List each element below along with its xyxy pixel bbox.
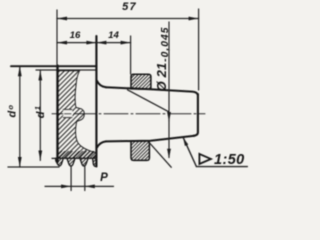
d_1 bottom arrowhead xyxy=(38,151,42,161)
diameter dimension bottom arrowhead xyxy=(167,149,171,159)
dimension 14: extension line right (to collar block) xyxy=(130,36,132,74)
diameter dimension mid arrowhead at axis xyxy=(167,112,171,122)
d_o dimension line xyxy=(19,66,21,167)
shaft lower fillet at pulley face xyxy=(97,141,106,147)
P dimension: right arrowhead (outside) xyxy=(85,185,95,189)
svg-text:57: 57 xyxy=(122,1,137,13)
dimension 14: dimension line xyxy=(96,42,130,44)
svg-text:d: d xyxy=(7,111,19,118)
svg-text:d: d xyxy=(35,111,47,118)
d_o bottom arrowhead xyxy=(18,157,22,167)
collar key block (top, hatched) xyxy=(131,74,151,89)
P dimension: right extension line xyxy=(84,166,86,191)
svg-text:16: 16 xyxy=(70,30,81,41)
pulley right face (with extension up to dim row) xyxy=(95,36,97,167)
svg-text:1: 1 xyxy=(33,106,42,110)
pulley groove tooth 3 xyxy=(80,158,88,166)
P dimension: left extension line xyxy=(70,166,72,191)
pulley bottom rim band (section) xyxy=(58,151,97,159)
pulley hub keyway notch (white) xyxy=(63,109,72,117)
P dimension: left arrowhead (outside) xyxy=(61,185,71,189)
pulley groove-bottom line (bottom), extended left as d_1 extension line xyxy=(52,157,96,159)
pulley web+rim hatched section xyxy=(58,71,97,159)
shaft upper fillet at pulley face xyxy=(97,81,106,88)
shaft bottom edge (taper) xyxy=(106,136,195,142)
dimension 14: right arrowhead xyxy=(121,41,131,45)
dimension 57: extension line left xyxy=(56,10,58,66)
dimension 57: left arrowhead xyxy=(57,17,67,21)
taper construction diagonal (upper) xyxy=(128,90,169,112)
shaft end face xyxy=(194,94,198,136)
pulley groove tooth 2 xyxy=(67,158,75,166)
paper background xyxy=(0,0,251,199)
pulley outer (top) edge, extended left as d_o extension line xyxy=(11,65,96,67)
pulley groove-bottom (top) line, extended left as d_1 extension line xyxy=(36,69,96,71)
pulley left face xyxy=(56,66,58,162)
dimension 57: extension line right xyxy=(198,9,200,90)
keyway notch top and bottom edges xyxy=(63,110,71,118)
shaft top edge (slight 1:50 taper) xyxy=(106,87,198,95)
dimension 57: dimension line xyxy=(57,18,199,20)
svg-text:1:50: 1:50 xyxy=(214,152,245,168)
pulley groove tooth 4 xyxy=(93,158,97,166)
taper construction diagonal (lower) xyxy=(150,144,171,168)
d_1 top arrowhead xyxy=(38,71,42,81)
pulley rim top band (section strip) xyxy=(58,66,97,71)
d_o top arrowhead xyxy=(18,66,22,76)
dimension 16: left arrowhead xyxy=(57,41,67,45)
centerline (axis, dash-dot) xyxy=(52,113,205,115)
d_1 dimension line xyxy=(39,70,41,160)
svg-text:14: 14 xyxy=(108,30,119,41)
pulley outer-diameter bottom extension line (d_o) xyxy=(8,166,59,168)
svg-text:P: P xyxy=(100,172,108,184)
centerline dash inside notch xyxy=(65,113,72,115)
collar key block (bottom, hatched) xyxy=(131,141,149,161)
dimension 14: left arrowhead xyxy=(97,41,107,45)
P dimension: dimension line xyxy=(45,185,114,187)
pulley groove tooth 1 xyxy=(56,158,64,166)
taper symbol triangle xyxy=(199,154,211,164)
dimension 57: right arrowhead xyxy=(189,17,199,21)
diameter dimension leader vertical line xyxy=(168,22,170,158)
dimension 16: right arrowhead xyxy=(86,41,96,45)
taper callout leader line xyxy=(183,138,247,167)
taper callout leader arrowhead xyxy=(183,137,188,146)
dimension 16: dimension line xyxy=(57,42,96,44)
svg-text:o: o xyxy=(6,105,15,110)
